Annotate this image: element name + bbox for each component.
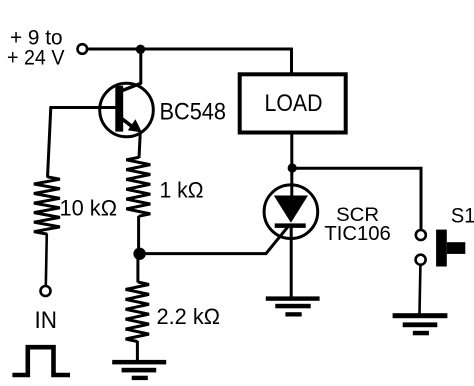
wire R2 to gate node [137, 216, 140, 254]
resistor R1 10 kOhm [34, 177, 60, 234]
svg-text:1 kΩ: 1 kΩ [160, 178, 204, 203]
svg-text:10 kΩ: 10 kΩ [60, 196, 118, 221]
wire emitter lead [139, 134, 140, 158]
node junction top rail [136, 45, 145, 54]
svg-text:+ 24 V: + 24 V [7, 46, 65, 70]
node gate junction [133, 248, 145, 260]
wire gate node to R3 [136, 254, 139, 283]
switch S1 contacts [416, 230, 426, 240]
ground under R3 [112, 360, 166, 380]
node SCR anode junction [288, 163, 297, 172]
switch S1 button [436, 230, 465, 267]
transistor Q1 BC548 [100, 83, 154, 137]
resistor R2 1 kOhm [126, 157, 150, 216]
wire LOAD to SCR anode [290, 133, 293, 196]
supply terminal [78, 44, 88, 54]
svg-text:LOAD: LOAD [265, 90, 323, 117]
wire S1 to ground [418, 266, 421, 314]
svg-text:2.2 kΩ: 2.2 kΩ [157, 304, 221, 329]
ground under S1 [393, 313, 448, 335]
wire collector drop [139, 49, 142, 84]
SCR TIC106 [264, 185, 318, 239]
svg-text:IN: IN [35, 307, 58, 334]
resistor R3 2.2 kOhm [126, 282, 149, 342]
wire base lead [48, 108, 116, 178]
IN terminal [41, 286, 51, 296]
svg-text:TIC106: TIC106 [324, 223, 391, 245]
label SCR TIC106 [324, 205, 391, 245]
wire gate run to SCR [140, 225, 290, 254]
ground under SCR [266, 296, 320, 316]
wire SCR cathode to ground [290, 228, 293, 298]
wire to switch branch [292, 168, 421, 230]
wire top rail [88, 48, 292, 51]
svg-text:BC548: BC548 [160, 99, 227, 126]
svg-text:S1: S1 [451, 203, 474, 227]
wire R1 to IN terminal [46, 234, 47, 286]
wire R3 to ground [136, 341, 139, 361]
input pulse symbol [12, 347, 70, 375]
supply label +9 to +24 V [7, 26, 65, 70]
LOAD box [240, 74, 346, 132]
wire rail to LOAD [290, 48, 293, 73]
